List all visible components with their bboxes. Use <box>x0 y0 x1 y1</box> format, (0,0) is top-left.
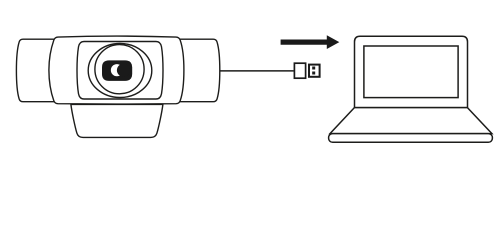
webcam left ear <box>16 39 60 101</box>
laptop base top <box>330 108 492 134</box>
arrow <box>281 35 340 49</box>
lens inner ring <box>95 45 144 94</box>
usb contact upper <box>312 67 315 70</box>
usb contact lower <box>312 72 315 75</box>
laptop base lip <box>329 134 493 143</box>
laptop screen <box>364 46 458 98</box>
webcam mounting clip <box>71 104 163 137</box>
webcam body <box>49 36 184 104</box>
usb cable <box>220 70 294 72</box>
lens moon highlight <box>111 64 123 76</box>
webcam right ear <box>176 39 220 101</box>
webcam face plate <box>77 42 163 100</box>
usb plug shield <box>309 65 320 77</box>
lens moon shadow <box>117 64 130 77</box>
lens outer ring <box>88 44 152 98</box>
usb plug overmold <box>294 63 305 78</box>
laptop screen bezel <box>355 36 468 107</box>
lens barrel <box>102 60 132 81</box>
